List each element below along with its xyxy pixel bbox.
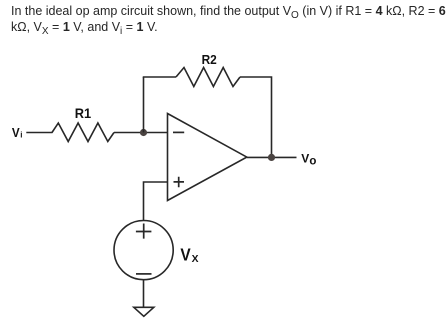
- label R2: [202, 52, 217, 67]
- wire noninverting input to source Vx: [144, 182, 168, 221]
- wire feedback top left segment: [143, 76, 176, 78]
- voltage source minus sign: [136, 273, 152, 275]
- wire Vi to R1: [26, 132, 52, 134]
- node Vi label: [12, 125, 23, 140]
- svg-text:o: o: [309, 156, 316, 168]
- svg-text:i: i: [20, 131, 22, 140]
- resistor R2: [176, 68, 240, 87]
- wire feedback top right segment and vertical to output: [240, 77, 272, 157]
- svg-text:V: V: [301, 151, 309, 165]
- svg-text:V: V: [180, 245, 191, 265]
- svg-text:X: X: [192, 254, 199, 265]
- node Vo junction dot: [268, 154, 275, 161]
- node A junction dot: [140, 129, 147, 136]
- op-amp noninverting pin plus sign: [174, 177, 185, 187]
- voltage source VX: [114, 221, 173, 280]
- wire R1 to op-amp inverting input: [114, 132, 168, 134]
- voltage source plus sign: [136, 224, 152, 239]
- ground: [134, 307, 154, 316]
- svg-text:R1: R1: [75, 106, 92, 121]
- wire source Vx to ground: [143, 280, 145, 307]
- resistor R1: [52, 123, 114, 142]
- svg-text:R2: R2: [202, 52, 217, 67]
- op-amp U1: [168, 114, 247, 201]
- op-amp inverting pin minus sign: [173, 131, 184, 133]
- label R1: [75, 106, 92, 121]
- label VX: [180, 245, 198, 265]
- svg-text:V: V: [12, 125, 20, 140]
- wire node A up to feedback: [143, 77, 145, 133]
- node Vo label: [301, 151, 316, 167]
- wire op-amp output: [247, 156, 297, 158]
